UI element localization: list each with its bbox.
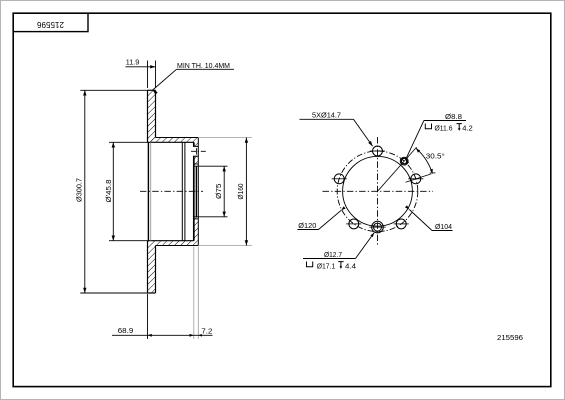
svg-text:Ø8.8: Ø8.8 bbox=[445, 114, 462, 121]
dimension 68.9 and 7.2 bbox=[112, 247, 213, 340]
label Ø120 bbox=[298, 206, 346, 230]
svg-text:4.4: 4.4 bbox=[345, 264, 356, 271]
bolt hole centerline bbox=[191, 148, 206, 154]
hole Ø8.8 with counterbore Ø11.6 bbox=[400, 157, 408, 165]
label 5XØ14.7 bbox=[300, 113, 373, 147]
svg-text:Ø17.1: Ø17.1 bbox=[317, 264, 336, 271]
svg-text:11.9: 11.9 bbox=[126, 59, 140, 66]
hole Ø12.7 with counterbore Ø17.1 bbox=[369, 221, 385, 233]
dimension Ø75 bbox=[216, 166, 226, 217]
svg-text:5XØ14.7: 5XØ14.7 bbox=[312, 113, 341, 120]
ring inner surface lines bbox=[148, 142, 150, 240]
flange mounting face bbox=[193, 142, 195, 240]
svg-text:Ø'45.8: Ø'45.8 bbox=[106, 179, 113, 202]
bolt circle Ø120 bbox=[337, 151, 418, 232]
label Ø8.8 counterbore bbox=[406, 114, 473, 164]
bolt hole Ø14.7 at 306 deg bbox=[394, 219, 409, 229]
svg-text:68.9: 68.9 bbox=[118, 328, 134, 335]
dimension Ø145.8 bbox=[106, 142, 149, 240]
svg-text:Ø160: Ø160 bbox=[238, 183, 245, 199]
svg-text:Ø300.7: Ø300.7 bbox=[77, 178, 84, 202]
note MIN TH. 10.4MM bbox=[153, 63, 234, 95]
vertical centerline right view bbox=[377, 137, 379, 246]
dimension Ø300.7 bbox=[77, 90, 149, 293]
svg-text:Ø120: Ø120 bbox=[298, 223, 316, 230]
svg-text:Ø104: Ø104 bbox=[435, 224, 452, 231]
svg-text:MIN TH. 10.4MM: MIN TH. 10.4MM bbox=[177, 63, 230, 70]
radius line to Ø8.8 hole bbox=[378, 147, 417, 191]
bolt hole Ø14.7 at 90 deg bbox=[370, 146, 385, 156]
svg-text:Ø11.6: Ø11.6 bbox=[435, 126, 453, 133]
hat interior corner lines bbox=[182, 142, 185, 240]
svg-text:215596: 215596 bbox=[497, 333, 523, 342]
dimension Ø160 bbox=[199, 138, 252, 246]
circle Ø104 bbox=[343, 156, 413, 226]
friction ring outline bbox=[148, 90, 156, 293]
angle arc 30.5 deg bbox=[416, 148, 433, 173]
svg-text:215596: 215596 bbox=[36, 20, 64, 29]
disc friction ring section (hatched) bbox=[148, 90, 199, 293]
svg-text:Ø75: Ø75 bbox=[216, 183, 223, 199]
horizontal centerline right view bbox=[323, 190, 434, 192]
flange boss and rim face bbox=[194, 138, 199, 246]
label Ø12.7 counterbore bbox=[303, 233, 374, 271]
axis centerline bbox=[140, 190, 203, 192]
bolt hole Ø14.7 at 162 deg bbox=[332, 174, 347, 184]
hat band edges bbox=[148, 138, 198, 246]
title box bbox=[13, 13, 88, 31]
bolt hole Ø14.7 at 18 deg bbox=[408, 174, 423, 184]
radius line through 18 deg bolt hole bbox=[406, 173, 436, 182]
bolt hole Ø14.7 at 234 deg bbox=[346, 219, 361, 229]
svg-text:4.2: 4.2 bbox=[462, 126, 473, 133]
svg-text:30.5°: 30.5° bbox=[426, 153, 445, 161]
svg-text:Ø12.7: Ø12.7 bbox=[324, 252, 342, 259]
bore edges with extension bbox=[193, 166, 228, 217]
bore chamfer line bbox=[195, 166, 197, 217]
bolt hole edges in flange bbox=[193, 146, 198, 156]
svg-text:7.2: 7.2 bbox=[201, 328, 212, 335]
label Ø104 bbox=[405, 205, 453, 231]
dimension 11.9 bbox=[126, 59, 156, 88]
